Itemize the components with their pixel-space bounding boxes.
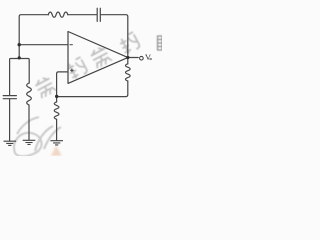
watermark logo curves bottom-left bbox=[14, 117, 61, 156]
wire: resistor down, corner, bottom wire to junction bbox=[57, 81, 128, 97]
watermark char 2 bbox=[66, 57, 89, 80]
ground 3 (right) bbox=[50, 141, 63, 145]
wire: capacitor to ground bbox=[9, 99, 11, 141]
watermark pink glow under middle ground bbox=[51, 146, 62, 157]
resistor R right (vertical zigzag) bbox=[125, 64, 130, 81]
capacitor C2 (left branch) bbox=[3, 96, 16, 99]
ground 2 (middle) bbox=[23, 140, 36, 144]
wire: R2 to ground bbox=[28, 105, 30, 140]
capacitor C top bbox=[97, 8, 100, 21]
wire: R3 to ground bbox=[56, 119, 58, 140]
T-bar split bbox=[10, 59, 30, 63]
wire: resistor to capacitor bbox=[68, 14, 97, 16]
wire: output bbox=[128, 57, 138, 59]
wire: plus input, corner, down to junction bbox=[57, 72, 68, 102]
wire: capacitor to top-right corner, down right side bbox=[101, 15, 128, 64]
circuit bbox=[3, 8, 138, 141]
resistor R3 (vertical zigzag under plus node) bbox=[54, 102, 59, 119]
node D (output node) bbox=[126, 56, 129, 59]
op-amp plus marker bbox=[70, 69, 73, 72]
watermark partial glyph right edge bbox=[157, 36, 163, 50]
label Vo bbox=[146, 55, 152, 60]
resistor R top (zigzag) bbox=[48, 12, 68, 17]
watermark char 3 bbox=[89, 45, 112, 69]
wire: minus input bbox=[19, 44, 67, 46]
watermark char 1 bbox=[34, 75, 57, 99]
op-amp U1 bbox=[68, 32, 128, 84]
wire: middle branch down bbox=[28, 62, 30, 83]
resistor R2 (middle vertical zigzag) bbox=[27, 83, 32, 105]
node A (junction minus input) bbox=[18, 43, 21, 46]
ground 1 (left) bbox=[4, 141, 17, 145]
watermark char 4 bbox=[118, 32, 141, 55]
output terminal circle bbox=[140, 56, 144, 60]
node C (junction plus/feedback) bbox=[55, 95, 58, 98]
node B (junction T-bar) bbox=[18, 56, 21, 59]
op-amp minus marker bbox=[70, 44, 73, 46]
wire: left branch down to capacitor bbox=[9, 62, 11, 95]
wire: left vertical + top-left corner bbox=[19, 15, 48, 58]
